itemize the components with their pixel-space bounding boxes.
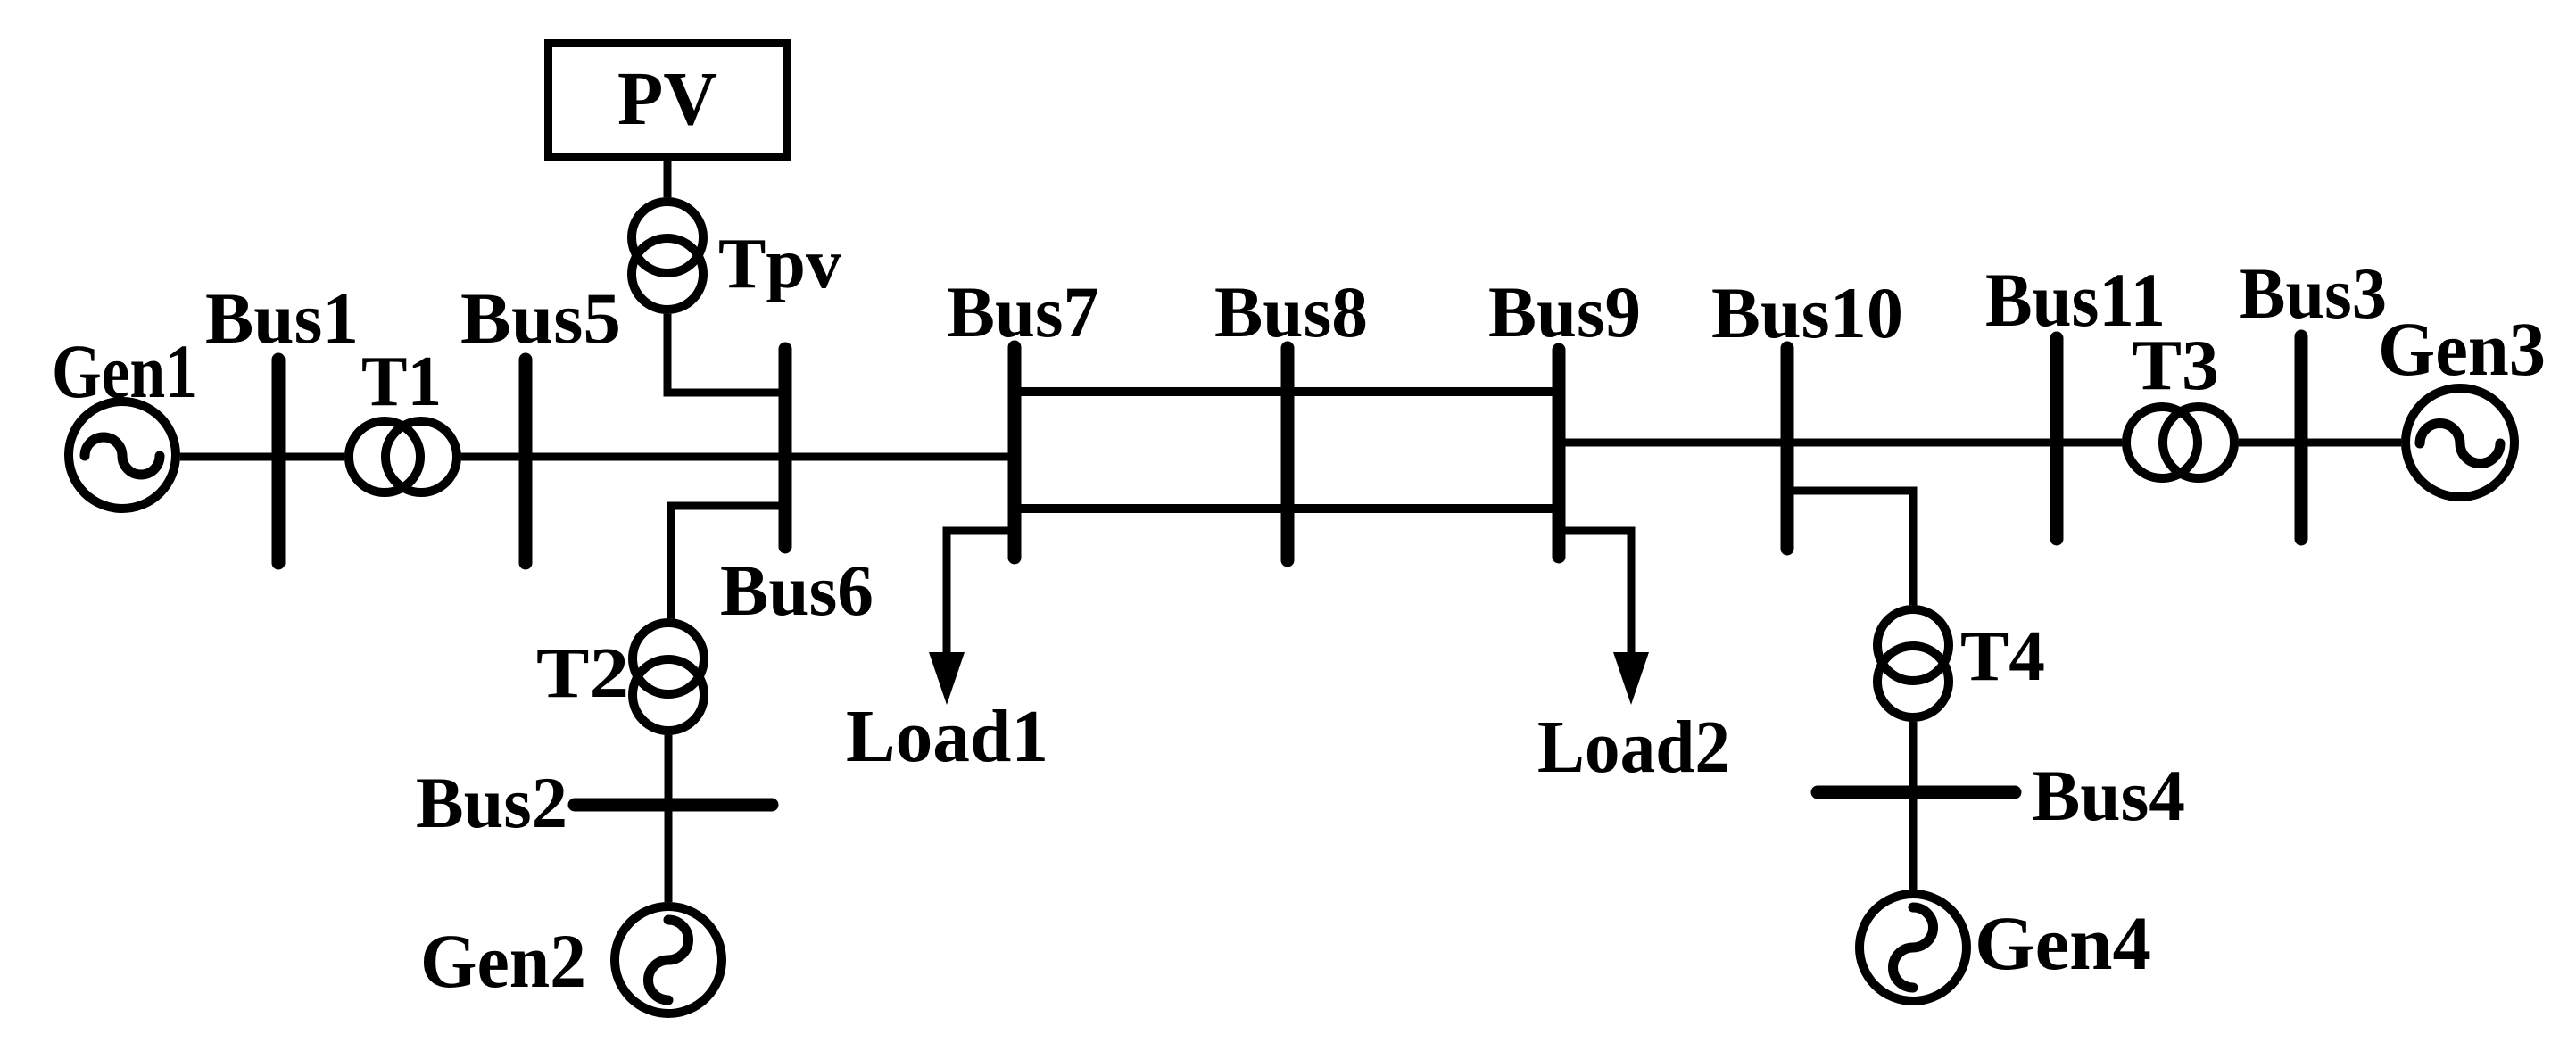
svg-text:T1: T1 — [361, 343, 442, 421]
svg-text:T2: T2 — [536, 634, 629, 713]
svg-text:Bus1: Bus1 — [205, 277, 359, 359]
svg-text:Bus10: Bus10 — [1711, 272, 1903, 353]
svg-text:Bus9: Bus9 — [1488, 271, 1641, 352]
svg-text:Bus6: Bus6 — [720, 550, 874, 631]
svg-text:Gen2: Gen2 — [420, 918, 586, 1004]
svg-text:Gen3: Gen3 — [2378, 306, 2546, 392]
svg-text:Bus4: Bus4 — [2032, 755, 2185, 836]
svg-text:T4: T4 — [1960, 617, 2045, 696]
svg-text:Gen1: Gen1 — [52, 328, 197, 414]
svg-text:Tpv: Tpv — [718, 225, 841, 303]
svg-text:Bus2: Bus2 — [416, 762, 567, 843]
svg-text:Bus7: Bus7 — [947, 271, 1099, 352]
svg-text:T3: T3 — [2132, 327, 2219, 405]
svg-text:Load1: Load1 — [846, 695, 1048, 778]
svg-text:Load2: Load2 — [1537, 706, 1730, 789]
svg-text:PV: PV — [617, 55, 717, 141]
svg-text:Gen4: Gen4 — [1975, 900, 2151, 986]
svg-text:Bus3: Bus3 — [2239, 252, 2387, 334]
svg-text:Bus5: Bus5 — [460, 277, 621, 359]
svg-text:Bus8: Bus8 — [1214, 271, 1368, 352]
